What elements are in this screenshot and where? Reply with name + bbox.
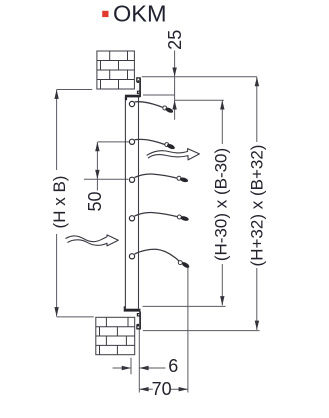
svg-text:(H x B): (H x B) xyxy=(50,176,69,229)
svg-text:6: 6 xyxy=(168,356,178,376)
svg-text:OKM: OKM xyxy=(113,0,167,26)
svg-text:(H-30) x (B-30): (H-30) x (B-30) xyxy=(212,148,231,261)
svg-text:(H+32) x (B+32): (H+32) x (B+32) xyxy=(247,145,266,267)
svg-text:70: 70 xyxy=(152,379,172,399)
svg-text:50: 50 xyxy=(85,191,105,211)
svg-text:25: 25 xyxy=(165,30,185,50)
